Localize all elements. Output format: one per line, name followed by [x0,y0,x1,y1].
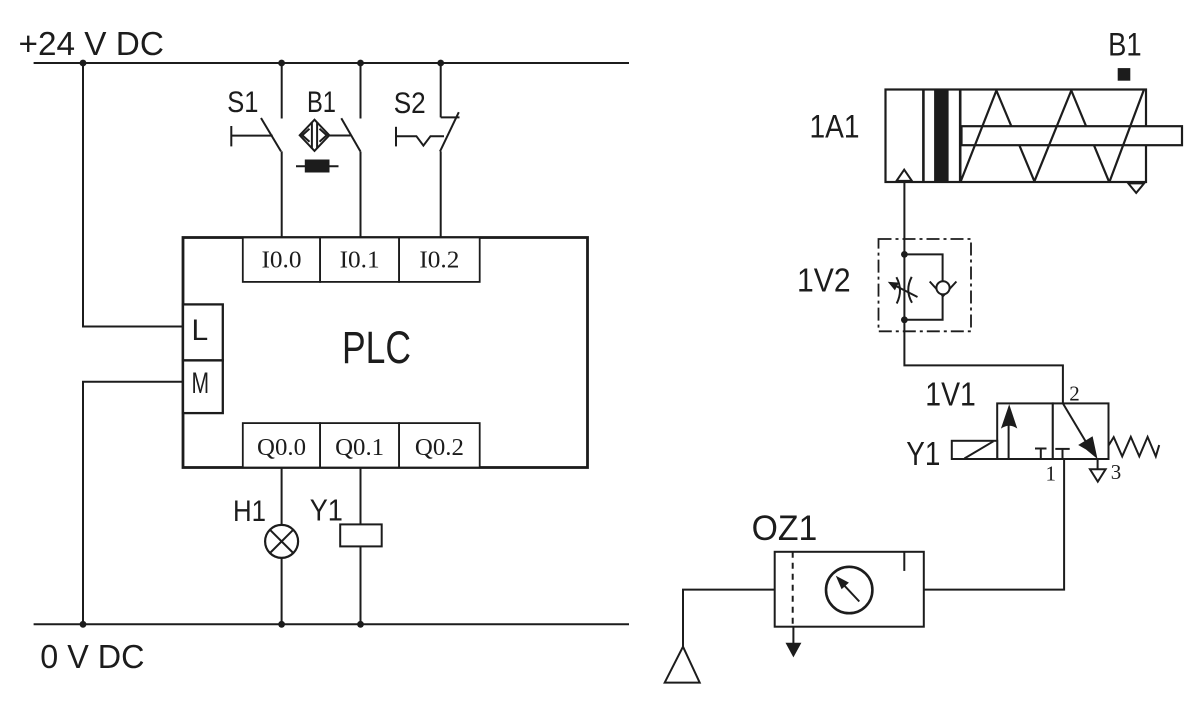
air service unit OZ1 [775,552,924,627]
wire left rail lower segment from M to 0V [83,382,183,625]
svg-text:I0.1: I0.1 [340,248,380,274]
valve 1V2 dash-dot enclosure [879,239,972,331]
svg-text:Q0.1: Q0.1 [335,435,384,461]
wire 0V bottom rail [34,623,629,625]
svg-text:S2: S2 [394,87,426,120]
sensor B1 position mark [1118,68,1131,81]
svg-text:Q0.0: Q0.0 [257,435,306,461]
svg-text:H1: H1 [233,495,266,528]
cylinder 1A1 single-acting [886,90,1183,183]
svg-text:1V1: 1V1 [925,376,976,413]
node junction dot S2 on +24V [437,60,444,67]
switch S2 normally-closed detent switch [396,63,460,238]
wire left rail upper segment to L [83,63,183,327]
svg-text:+24 V DC: +24 V DC [19,25,164,62]
terminal box Q0.1 [320,423,399,467]
cylinder vent triangle (bottom right) [1128,183,1144,193]
terminal box I0.0 [243,238,320,282]
svg-text:L: L [192,314,209,347]
terminal box Q0.2 [399,423,480,467]
svg-text:1V2: 1V2 [797,262,851,299]
switch S1 normally-open pushbutton [231,63,281,238]
terminal box L [183,304,223,360]
svg-text:I0.0: I0.0 [262,248,302,274]
valve 1V1 exhaust port 3 stub [1097,459,1099,469]
svg-text:S1: S1 [227,86,258,119]
svg-text:Y1: Y1 [906,435,940,472]
valve 1V1 exhaust triangle port 3 [1090,469,1106,481]
OZ1 exhaust arrow [786,627,802,658]
valve 1V1 3/2-way body [997,403,1108,459]
terminal box I0.2 [399,238,480,282]
node junction dot H1 on 0V [278,621,285,628]
svg-text:Q0.2: Q0.2 [415,435,464,461]
wire cylinder to 1V2 [903,182,905,254]
svg-text:Y1: Y1 [310,493,343,528]
valve 1V2 one-way flow control [888,251,957,323]
wire +24V top rail [34,62,629,64]
terminal box M [183,360,223,413]
svg-text:2: 2 [1069,381,1080,405]
svg-text:B1: B1 [1108,27,1142,63]
wire valve port 1 to OZ1 [924,459,1064,590]
svg-text:1: 1 [1046,461,1057,485]
svg-text:B1: B1 [307,86,336,119]
wire 1V2 to valve 1V1 port 2 [904,320,1063,404]
svg-text:M: M [192,367,210,400]
solenoid Y1 of valve 1V1 [952,441,997,459]
lamp H1 [265,468,298,625]
air supply source triangle [665,647,700,683]
svg-text:PLC: PLC [342,322,411,373]
valve 1V1 spring return [1109,437,1160,457]
terminal box Q0.0 [243,423,320,467]
coil Y1 solenoid [340,468,382,625]
sensor B1 proximity switch contact [300,63,361,238]
svg-text:OZ1: OZ1 [752,509,818,548]
svg-text:3: 3 [1111,460,1122,484]
svg-text:1A1: 1A1 [810,109,860,145]
node junction dot B1 on +24V [357,60,364,67]
svg-text:I0.2: I0.2 [419,248,459,274]
node junction dot S1 on +24V [278,60,285,67]
node junction dot Y1 on 0V [357,621,364,628]
svg-text:0 V DC: 0 V DC [40,638,144,675]
wire OZ1 to air supply [683,590,775,647]
node junction dot left rail on +24V [80,60,87,67]
sensor B1 magnet symbol [296,161,339,172]
cylinder port arrow (bottom left) [897,170,912,181]
PLC main box [183,238,588,468]
terminal box I0.1 [320,238,399,282]
node junction dot left rail on 0V [80,621,87,628]
